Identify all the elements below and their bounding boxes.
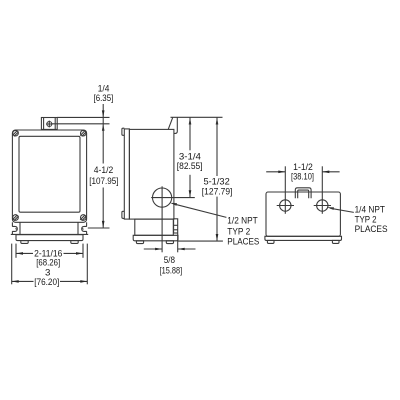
front view: mounting tab [41, 118, 57, 130]
dimension 3 label [34, 267, 59, 287]
top view: left 1/4 NPT hole [277, 200, 294, 211]
top view: left foot [267, 240, 274, 243]
dimension 3-1/4: line with arrows [189, 117, 192, 197]
svg-text:[76.20]: [76.20] [34, 277, 59, 287]
side view: 1/2 NPT hole circle [151, 186, 195, 252]
front view: right foot [71, 241, 78, 244]
top view: enclosure outline [266, 192, 340, 236]
front view: left foot [21, 241, 28, 244]
extension line: body width left [11, 244, 13, 285]
extension line: slot center right [88, 227, 110, 229]
dimension 4-1/2: line with arrows [102, 117, 105, 227]
top view: bracket profile outer [295, 188, 311, 198]
side view: base section [135, 219, 174, 235]
svg-text:[6.35]: [6.35] [94, 93, 114, 103]
svg-text:4-1/2: 4-1/2 [94, 165, 114, 175]
front view: cover inner panel [19, 136, 80, 212]
side view: bottom plate [133, 235, 178, 241]
front view: tab mounting hole [46, 121, 52, 128]
dimension 3-1/4 label [177, 152, 203, 171]
svg-text:1/4: 1/4 [98, 83, 110, 93]
leader: 1/2 NPT callout [170, 203, 227, 218]
extension line: npt vertical right [177, 234, 179, 253]
svg-text:1/4 NPT: 1/4 NPT [355, 205, 386, 215]
side view: cover latch [174, 219, 178, 233]
side view: cover hinge strip [124, 129, 129, 219]
svg-text:[127.79]: [127.79] [202, 187, 233, 197]
svg-text:[107.95]: [107.95] [89, 176, 118, 186]
dimension 5/8: arrows [144, 248, 196, 251]
dimension 5/8 label [160, 255, 183, 276]
side view: main body [129, 129, 174, 219]
extension line: right hole center [321, 166, 323, 214]
dimension 3: line with arrows [12, 280, 88, 283]
dimension 1-1/2 label [291, 162, 314, 181]
svg-text:5/8: 5/8 [164, 255, 175, 265]
dimension 5-1/32 label [202, 176, 233, 196]
side view: right foot [166, 241, 173, 244]
note 1/2 NPT TYP 2 PLACES [227, 216, 259, 247]
svg-text:3: 3 [45, 267, 50, 277]
top view: bottom plate [265, 236, 342, 240]
svg-text:TYP 2: TYP 2 [227, 226, 250, 236]
dimension 1/4: down arrow [102, 104, 105, 117]
dimension 5-1/32: line with arrows [216, 117, 219, 241]
front view: left mounting slot [12, 222, 17, 234]
extension line: side view top [171, 116, 223, 118]
dimension 1/4 label [94, 83, 114, 103]
svg-text:PLACES: PLACES [227, 237, 259, 247]
note 1/4 NPT TYP 2 PLACES [355, 205, 388, 234]
leader: 1/4 NPT callout [327, 207, 354, 212]
dimension 4-1/2 label [89, 165, 118, 186]
front view: recessed base section [11, 222, 88, 234]
svg-text:[82.55]: [82.55] [177, 161, 203, 171]
side view: left foot [136, 241, 143, 244]
front view: screw bottom-left [12, 215, 18, 221]
svg-text:[38.10]: [38.10] [291, 171, 314, 181]
top view: right 1/4 NPT hole [314, 200, 331, 211]
front view: screw bottom-right [80, 215, 86, 221]
front view: bottom plate [16, 235, 83, 241]
svg-text:1/2 NPT: 1/2 NPT [227, 216, 258, 226]
dimension 1-1/2: arrows [266, 171, 339, 174]
svg-text:TYP 2: TYP 2 [355, 214, 377, 224]
front view: screw top-right [80, 130, 86, 136]
extension line: tab hole center [52, 123, 109, 125]
svg-text:[68.26]: [68.26] [36, 258, 60, 268]
top view: bracket profile inner [298, 190, 309, 198]
front view: enclosure outer body [12, 130, 86, 222]
extension line: plate width right [82, 244, 84, 258]
front view: screw top-left [12, 130, 18, 136]
side view: rear mounting bracket [168, 117, 177, 133]
extension line: plate width left [15, 244, 17, 258]
top view: right foot [332, 240, 339, 243]
side view: hinge top nub [122, 128, 124, 135]
dimension 2-11/16: line with arrows [16, 252, 83, 255]
dimension 2-11/16 label [34, 248, 62, 267]
extension line: body width right [86, 244, 88, 285]
svg-text:5-1/32: 5-1/32 [203, 176, 229, 186]
front view: right mounting slot [82, 222, 87, 234]
side view: hinge bottom nub [122, 211, 124, 218]
extension line: side view bottom [178, 240, 223, 242]
extension line: left hole center [284, 166, 286, 214]
svg-text:PLACES: PLACES [355, 224, 388, 234]
svg-text:[15.88]: [15.88] [160, 266, 183, 276]
extension line: tab top [57, 116, 109, 118]
